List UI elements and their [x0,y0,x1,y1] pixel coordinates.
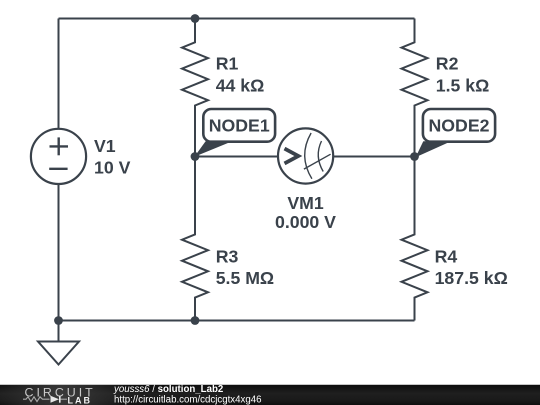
svg-text:VM1: VM1 [287,193,324,213]
svg-text:yousss6 / solution_Lab2: yousss6 / solution_Lab2 [113,384,223,395]
resistor R2 [402,19,428,157]
footer text [113,384,262,405]
svg-text:0.000 V: 0.000 V [275,212,336,232]
ground [38,321,79,365]
svg-text:1.5 kΩ: 1.5 kΩ [436,76,490,96]
svg-text:http://circuitlab.com/cdcjcgtx: http://circuitlab.com/cdcjcgtx4xg46 [114,394,262,405]
svg-text:R3: R3 [216,246,239,266]
svg-text:44 kΩ: 44 kΩ [216,76,265,96]
label V1 10 V [94,136,131,178]
svg-text:R2: R2 [436,54,459,74]
svg-text:V1: V1 [94,136,116,156]
junction dot bottom left (ground) [54,316,63,325]
label R4 187.5 kOhm [435,246,508,288]
resistor R3 [182,157,208,321]
svg-text:5.5 MΩ: 5.5 MΩ [216,268,274,288]
junction dot node B (NODE2) [410,152,419,161]
resistor R4 [402,157,428,321]
svg-text:NODE2: NODE2 [429,116,490,136]
svg-text:NODE1: NODE1 [209,116,270,136]
voltage source V1 [31,129,86,184]
voltmeter VM1 [278,128,333,183]
junction dot node A (NODE1) [191,152,200,161]
label R1 44 kOhm [216,54,265,96]
junction dot top (R1/top wire) [191,14,200,23]
svg-text:10 V: 10 V [94,158,131,178]
svg-text:R4: R4 [435,246,458,266]
label VM1 0.000 V [275,193,336,232]
wire bottom horizontal [59,320,415,322]
label R3 5.5 MOhm [216,246,274,288]
svg-text:187.5 kΩ: 187.5 kΩ [435,268,508,288]
resistor R1 [182,19,208,157]
label R2 1.5 kOhm [436,54,490,96]
wire voltmeter to node2 [333,156,415,158]
CircuitLab logo [23,385,96,405]
wire left bottom (V1 lower lead) [58,184,60,321]
node NODE2 callout [416,109,495,157]
wire left top (V1 upper lead) [58,19,60,130]
junction dot bottom (R3/bottom wire) [191,316,200,325]
svg-text:LAB: LAB [68,396,93,405]
wire top horizontal [59,18,415,20]
wire node1 to voltmeter [195,156,278,158]
footer bar [0,384,540,405]
node NODE1 callout [194,109,275,157]
svg-text:R1: R1 [216,54,239,74]
